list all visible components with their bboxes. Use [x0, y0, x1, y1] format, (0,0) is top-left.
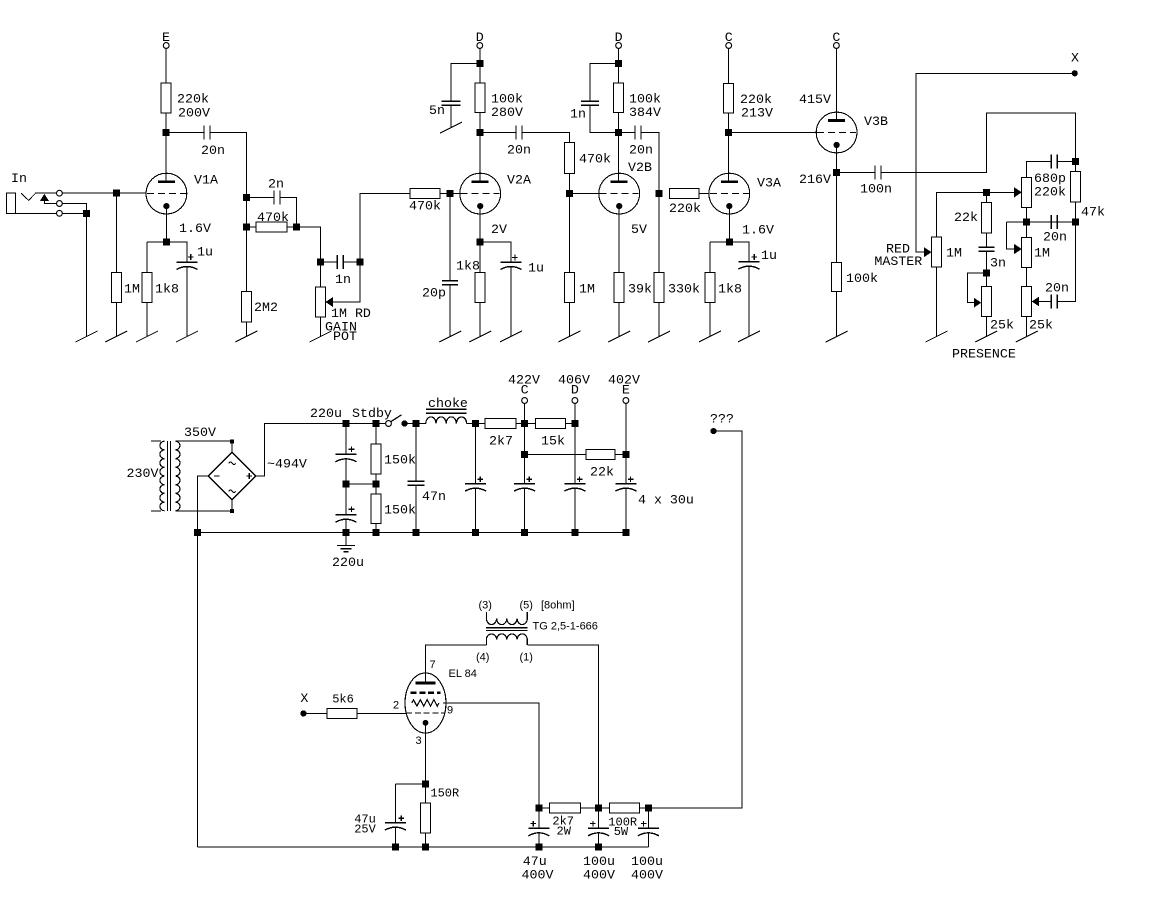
svg-text:1k8: 1k8 — [718, 282, 742, 297]
node 1n left — [317, 259, 324, 266]
jack ring terminal — [57, 201, 63, 207]
wire master pot top to 220k pot wiper — [937, 192, 1015, 237]
wire 100n out to presence network — [881, 113, 1075, 173]
wire 20n out down to tone network — [210, 133, 246, 292]
wire 100k to plate node — [618, 113, 620, 133]
node V3A grid — [656, 190, 663, 197]
ground 1k8 V1A — [136, 331, 158, 342]
wire 15k to D node — [566, 423, 575, 425]
resistor 100k (V3B cathode load) — [832, 263, 842, 292]
svg-text:22k: 22k — [954, 210, 978, 225]
node V1A cathode — [163, 238, 170, 245]
wire 47n to ground bus — [415, 485, 417, 532]
wire 220k to plate node — [728, 113, 730, 133]
svg-text:220u: 220u — [332, 555, 364, 570]
transformer core — [167, 441, 169, 511]
triode V1A — [146, 173, 187, 214]
node 680p/47k — [1072, 158, 1079, 165]
svg-text:TG 2,5-1-666: TG 2,5-1-666 — [533, 621, 598, 633]
wire 20n down to V3A grid node — [641, 133, 659, 194]
wire V2A cathode — [479, 209, 481, 272]
wire 470k to grid — [440, 193, 460, 195]
svg-text:1k8: 1k8 — [456, 259, 480, 274]
svg-text:[8ohm]: [8ohm] — [541, 600, 575, 612]
wire 1n to plate node — [590, 105, 619, 132]
wire C to V3B plate — [835, 48, 837, 120]
electrolytic 220u upper — [345, 424, 347, 455]
svg-text:47n: 47n — [422, 489, 446, 504]
svg-text:POT: POT — [333, 329, 357, 344]
svg-text:20n: 20n — [201, 143, 225, 158]
capacitor 20n (V1A coupling) — [203, 126, 205, 140]
wire 220k pot bottom row — [1026, 208, 1028, 238]
svg-text:220k: 220k — [1034, 185, 1066, 200]
svg-text:V2A: V2A — [507, 173, 531, 188]
triode V2B — [599, 173, 640, 214]
resistor 100k (V2A anode) — [479, 63, 481, 83]
svg-text:In: In — [11, 171, 27, 186]
triode V2A — [460, 173, 501, 214]
svg-text:???: ??? — [710, 411, 734, 426]
resistor 220k (V1A anode) — [161, 83, 171, 113]
node 150k top — [373, 420, 380, 427]
resistor 100R 5W (PS dropper) — [609, 803, 639, 813]
wire plate node to 20n — [166, 132, 204, 134]
node 1n right — [357, 259, 364, 266]
wire plate node to V1A plate — [165, 133, 167, 182]
ground 2M2 — [235, 331, 257, 342]
svg-text:384V: 384V — [629, 105, 661, 120]
wire tip to V1A grid — [63, 192, 147, 194]
ground 39k — [608, 331, 630, 342]
wire cathode to 100k — [836, 173, 838, 263]
svg-text:2k7: 2k7 — [489, 434, 513, 449]
wire 2k7 to B+ node — [580, 807, 609, 809]
resistor 150k lower (bleeder) — [371, 494, 381, 523]
wire 25k wiper to 20n — [1039, 301, 1051, 303]
wire grid node to 330k — [658, 194, 660, 273]
wire V2B cathode — [618, 209, 620, 272]
capacitor 1u (V1A cathode bypass) — [188, 256, 194, 258]
electrolytic 220u lower — [349, 508, 355, 510]
node E rail — [622, 451, 629, 458]
wire X to master pot wiper — [916, 73, 1075, 252]
wire gain pot to ground — [320, 317, 322, 337]
wire ??? to output node — [648, 431, 742, 808]
node 100R right — [645, 804, 652, 811]
wire 100k to plate node — [479, 113, 481, 133]
svg-text:100k: 100k — [846, 271, 878, 286]
wire 20n to 47k node — [1057, 222, 1075, 302]
ground jack sleeve — [76, 331, 98, 342]
wire 1u to ground — [186, 266, 188, 336]
wire plate node to 20n — [619, 132, 635, 134]
capacitor 680p (bypass) — [1050, 155, 1052, 169]
electrolytic 100u 400V #2 — [647, 808, 649, 829]
wire sleeve to ground — [63, 213, 87, 336]
svg-text:5W: 5W — [614, 825, 629, 839]
svg-text:V3A: V3A — [757, 176, 781, 191]
wire gain pot wiper to 1n right — [333, 262, 360, 302]
ground gain pot — [310, 331, 332, 342]
node 220k pot bottom — [1023, 218, 1030, 225]
node C rail — [521, 420, 528, 427]
input jack In body — [6, 193, 15, 213]
svg-text:D: D — [571, 383, 579, 398]
capacitor 20n (V2A coupling) — [515, 126, 517, 140]
ground 100k V3B — [826, 331, 848, 342]
jack tip terminal — [57, 190, 63, 196]
svg-text:Stdby: Stdby — [352, 406, 392, 421]
capacitor 1u (V2A cathode bypass) — [512, 257, 518, 259]
wire 680p to 47k node — [1057, 161, 1075, 163]
node 470k right — [293, 224, 300, 231]
jack sleeve terminal — [57, 210, 63, 216]
svg-text:15k: 15k — [541, 434, 565, 449]
ground 25k right — [1016, 331, 1038, 342]
wire V3A cathode — [728, 209, 730, 242]
wire left end down to 1M pot wiper — [1007, 222, 1015, 249]
wire plate node to V2A plate — [479, 133, 481, 182]
svg-text:(4): (4) — [476, 652, 489, 664]
wire cathode to 47u/150R — [395, 783, 425, 785]
resistor 15k (PS dropper) — [536, 419, 566, 429]
wire secondary bottom to bridge — [175, 510, 232, 512]
wire cathode node to 1k8 — [710, 241, 729, 243]
ground 1u V3A — [738, 331, 760, 342]
wire 150k mid — [375, 474, 377, 494]
node D rail — [571, 420, 578, 427]
svg-text:V3B: V3B — [864, 114, 888, 129]
node V2A cathode — [477, 238, 484, 245]
electrolytic 30u #3 — [577, 478, 583, 480]
wire 3n to 25k pot — [985, 251, 987, 286]
svg-text:(3): (3) — [479, 600, 492, 612]
transformer output core — [486, 627, 528, 629]
wire 5n to ground — [450, 105, 452, 128]
wire 22k to E node — [615, 453, 626, 455]
svg-text:20n: 20n — [507, 143, 531, 158]
svg-text:39k: 39k — [628, 282, 652, 297]
wire cathode node to 1k8 — [147, 241, 166, 243]
electrolytic 47u 400V — [538, 808, 540, 829]
wire ring to sleeve bus — [63, 204, 87, 214]
svg-text:400V: 400V — [631, 867, 663, 882]
svg-text:7: 7 — [430, 659, 436, 671]
wire 470k right to gain pot — [287, 227, 321, 262]
svg-text:216V: 216V — [799, 172, 831, 187]
input jack tip contact — [21, 193, 56, 200]
svg-text:100n: 100n — [860, 182, 892, 197]
svg-text:MASTER: MASTER — [874, 254, 922, 269]
svg-text:20n: 20n — [629, 143, 653, 158]
resistor 39k (V2B cathode) — [614, 272, 624, 302]
wire D to plate branch — [479, 48, 481, 63]
potentiometer 25k (presence, right) — [1022, 286, 1032, 316]
ground 1u V1A — [176, 331, 198, 342]
svg-text:V2B: V2B — [628, 160, 652, 175]
wire 470k left stub — [246, 226, 256, 228]
svg-text:X: X — [300, 691, 308, 706]
svg-text:20n: 20n — [1045, 281, 1069, 296]
svg-text:1n: 1n — [570, 107, 586, 122]
wire plate node to V2B plate — [618, 133, 620, 182]
node sleeve junction — [83, 210, 90, 217]
ground master pot — [926, 331, 948, 342]
svg-text:5V: 5V — [631, 222, 647, 237]
resistor 1M (V1A grid leak) — [111, 272, 121, 302]
svg-text:22k: 22k — [590, 465, 614, 480]
svg-text:1u: 1u — [197, 245, 213, 260]
svg-text:200V: 200V — [178, 106, 210, 121]
svg-text:C: C — [521, 383, 529, 398]
resistor 470k (V2A grid stopper) — [410, 189, 440, 199]
svg-text:(1): (1) — [520, 652, 533, 664]
svg-text:EL 84: EL 84 — [449, 668, 477, 680]
svg-text:4 x 30u: 4 x 30u — [638, 493, 694, 508]
svg-text:1u: 1u — [528, 261, 544, 276]
ground 5n — [440, 122, 462, 133]
ground 1M — [105, 331, 127, 342]
svg-text:1M: 1M — [1034, 246, 1050, 261]
wire 220k to plate node — [165, 113, 167, 133]
node V2A plate — [476, 129, 483, 136]
wire bridge minus to ground bus — [198, 476, 209, 533]
triode V3A — [709, 173, 750, 214]
svg-text:5k6: 5k6 — [332, 692, 354, 706]
wire X to 5k6 — [303, 712, 327, 714]
wire 220u to ground bus — [345, 519, 347, 533]
wire 1k8 to ground — [146, 303, 148, 337]
ground 1k8 V2A — [469, 331, 491, 342]
potentiometer 1M (middle) — [1022, 237, 1032, 267]
ground 20p — [439, 331, 461, 342]
wire plate node to 20n — [480, 132, 516, 134]
capacitor 47n (snubber) — [415, 424, 417, 482]
wire 1n left stub — [321, 261, 338, 263]
wire 1M to ground — [115, 303, 117, 337]
node D branch — [476, 60, 483, 67]
svg-text:1k8: 1k8 — [155, 282, 179, 297]
node V2B grid — [566, 190, 573, 197]
wire screen node to 2k7 — [539, 807, 550, 809]
wire jack sleeve line — [15, 212, 56, 214]
svg-text:400V: 400V — [522, 867, 554, 882]
wire EL84 plate to OT — [425, 645, 486, 683]
bridge rectifier — [208, 452, 256, 500]
resistor 5k6 (EL84 grid stopper) — [327, 708, 357, 718]
wire cathode node to 1u — [729, 242, 749, 262]
svg-text:415V: 415V — [799, 92, 831, 107]
resistor 47k — [1074, 162, 1076, 172]
wire 22k to 3n — [985, 233, 987, 248]
wire 25k pot to ground — [985, 316, 987, 336]
wire 1u to ground — [510, 266, 512, 336]
wire 220k to tube — [699, 193, 709, 195]
svg-text:400V: 400V — [583, 867, 615, 882]
potentiometer 25k (presence, left) — [981, 286, 991, 316]
potentiometer 220k (master network) — [1022, 178, 1032, 208]
transformer HT secondary winding — [175, 441, 180, 511]
svg-text:470k: 470k — [579, 152, 611, 167]
wire 220u mid — [345, 459, 347, 515]
wire EL84 cathode — [425, 726, 427, 784]
wire 22k row — [525, 453, 586, 455]
node D branch V2B — [615, 60, 622, 67]
svg-text:1M: 1M — [946, 246, 962, 261]
resistor 220k (V3A anode) — [724, 84, 734, 114]
svg-text:PRESENCE: PRESENCE — [952, 347, 1016, 362]
wire C to 220k anode — [728, 48, 730, 83]
node V3B cathode — [833, 169, 840, 176]
wire 2n left stub — [246, 197, 274, 199]
svg-text:25k: 25k — [1029, 318, 1053, 333]
svg-text:330k: 330k — [668, 282, 700, 297]
wire E to 220k — [165, 48, 167, 83]
wire D to 1n — [590, 63, 619, 101]
wire 20p to ground — [449, 285, 451, 337]
resistor 1k8 (V1A cathode) — [142, 272, 152, 302]
wire 1n right up to V2A grid resistor — [360, 194, 410, 262]
svg-text:350V: 350V — [184, 425, 216, 440]
wire 20n to 470k vertical — [522, 133, 569, 143]
wire plate node to V3A plate — [728, 133, 730, 182]
svg-text:150k: 150k — [384, 502, 416, 517]
svg-text:20n: 20n — [1043, 230, 1067, 245]
wire 1M grid leak — [115, 193, 117, 272]
transformer mains primary winding — [151, 440, 161, 442]
input jack switch arrow — [40, 194, 49, 201]
wire 1n right stub — [343, 261, 360, 263]
resistor 100k (V2B anode) — [618, 63, 620, 83]
wire 150k to ground bus — [375, 524, 377, 533]
svg-text:1n: 1n — [335, 272, 351, 287]
wire 2M2 to ground — [245, 322, 247, 337]
svg-text:9: 9 — [447, 705, 453, 717]
node V1A plate — [163, 129, 170, 136]
svg-text:280V: 280V — [491, 105, 523, 120]
wire 25k right to ground — [1026, 316, 1028, 336]
wire 47k to lower node — [1074, 202, 1076, 222]
earth ground symbol — [345, 533, 347, 546]
capacitor 47u 25V (cathode bypass) — [394, 784, 396, 823]
svg-text:220k: 220k — [669, 201, 701, 216]
wire switch to choke — [405, 423, 426, 425]
node OT B+ — [595, 804, 602, 811]
node 47k bottom — [1072, 218, 1079, 225]
node V3A plate — [725, 129, 732, 136]
svg-text:V1A: V1A — [194, 173, 218, 188]
ground 1k8 V3A — [699, 331, 721, 342]
wire OT primary to B+ node — [527, 645, 598, 808]
wire D node — [574, 403, 576, 483]
ground bus (output stage) — [198, 846, 649, 848]
resistor 22k (presence) — [985, 192, 987, 202]
wire gain pot top — [320, 262, 322, 287]
wire grid node to tube — [569, 193, 599, 195]
potentiometer 1M RD GAIN POT — [316, 287, 326, 317]
node V3A cathode — [726, 238, 733, 245]
wire 1M to ground — [568, 303, 570, 337]
node 2n left — [243, 194, 250, 201]
resistor 2M2 (shunt) — [241, 292, 251, 322]
node screen supply — [535, 804, 542, 811]
ground bus (power supply) — [198, 532, 626, 534]
wire 470k to V2B grid node — [568, 173, 570, 193]
capacitor 100n (output coupling) — [874, 166, 876, 180]
svg-text:213V: 213V — [741, 106, 773, 121]
wire secondary top to bridge — [175, 440, 232, 442]
resistor 1k8 (V2A cathode) — [475, 272, 485, 302]
svg-text:1M: 1M — [579, 282, 595, 297]
node C 22k row — [521, 451, 528, 458]
electrolytic 30u #1 — [475, 424, 477, 484]
resistor 150R (EL84 cathode) — [424, 784, 426, 803]
node 150k mid — [373, 481, 380, 488]
svg-text:470k: 470k — [409, 199, 441, 214]
wire D to 5n — [451, 63, 480, 101]
wire bridge plus to B+ bus — [256, 424, 386, 477]
svg-text:(5): (5) — [520, 600, 533, 612]
triode V3B — [816, 112, 857, 153]
wire V3B cathode — [836, 148, 838, 173]
svg-text:3: 3 — [416, 735, 422, 747]
wire cathode node to 1u — [166, 242, 187, 262]
svg-text:47k: 47k — [1081, 205, 1105, 220]
wire 5k6 to EL84 grid — [357, 712, 406, 714]
svg-text:150k: 150k — [384, 453, 416, 468]
svg-text:20p: 20p — [422, 286, 446, 301]
svg-text:150R: 150R — [430, 787, 459, 801]
svg-text:E: E — [622, 383, 630, 398]
svg-text:230V: 230V — [127, 466, 159, 481]
node V2B plate — [615, 129, 622, 136]
wire 100R to ??? node — [640, 807, 649, 809]
wire grid node to 1M — [568, 194, 570, 273]
node 220u mid — [343, 481, 350, 488]
wire jack ring contact to ring terminal — [44, 201, 56, 204]
wire 2k7 to C node — [516, 423, 536, 425]
svg-text:2M2: 2M2 — [254, 300, 278, 315]
node 47n top — [413, 420, 420, 427]
wire 1u to ground — [748, 266, 750, 337]
wire E node — [625, 403, 627, 483]
wire C node — [524, 403, 526, 483]
wire 3n node to 25k wiper — [968, 273, 987, 303]
resistor 470k (V2A-V2B load, vertical) — [564, 143, 574, 174]
wire master pot to ground — [936, 267, 938, 336]
capacitor 3n (presence) — [978, 246, 994, 248]
wire PS ground to output ground bus — [197, 533, 199, 847]
svg-text:25V: 25V — [354, 822, 376, 836]
resistor 22k (PS dropper) — [586, 449, 615, 459]
resistor 1M (V2B grid leak) — [564, 272, 574, 302]
wire 220k pot top to 680p — [1027, 162, 1052, 178]
node 22k junction — [983, 189, 990, 196]
svg-text:3n: 3n — [990, 256, 1006, 271]
svg-text:1.6V: 1.6V — [179, 221, 211, 236]
svg-text:X: X — [1071, 51, 1079, 66]
electrolytic 30u #2 — [527, 478, 533, 480]
resistor 220k (V3A grid stopper) — [669, 189, 699, 199]
node tip/1M junction — [113, 190, 120, 197]
node 220u top — [343, 420, 350, 427]
svg-text:25k: 25k — [990, 318, 1014, 333]
wire 1k8 to ground — [479, 303, 481, 337]
capacitor 1u (V3A cathode bypass) — [752, 256, 758, 258]
ground 1u V2A — [500, 331, 522, 342]
svg-text:2: 2 — [393, 700, 399, 712]
